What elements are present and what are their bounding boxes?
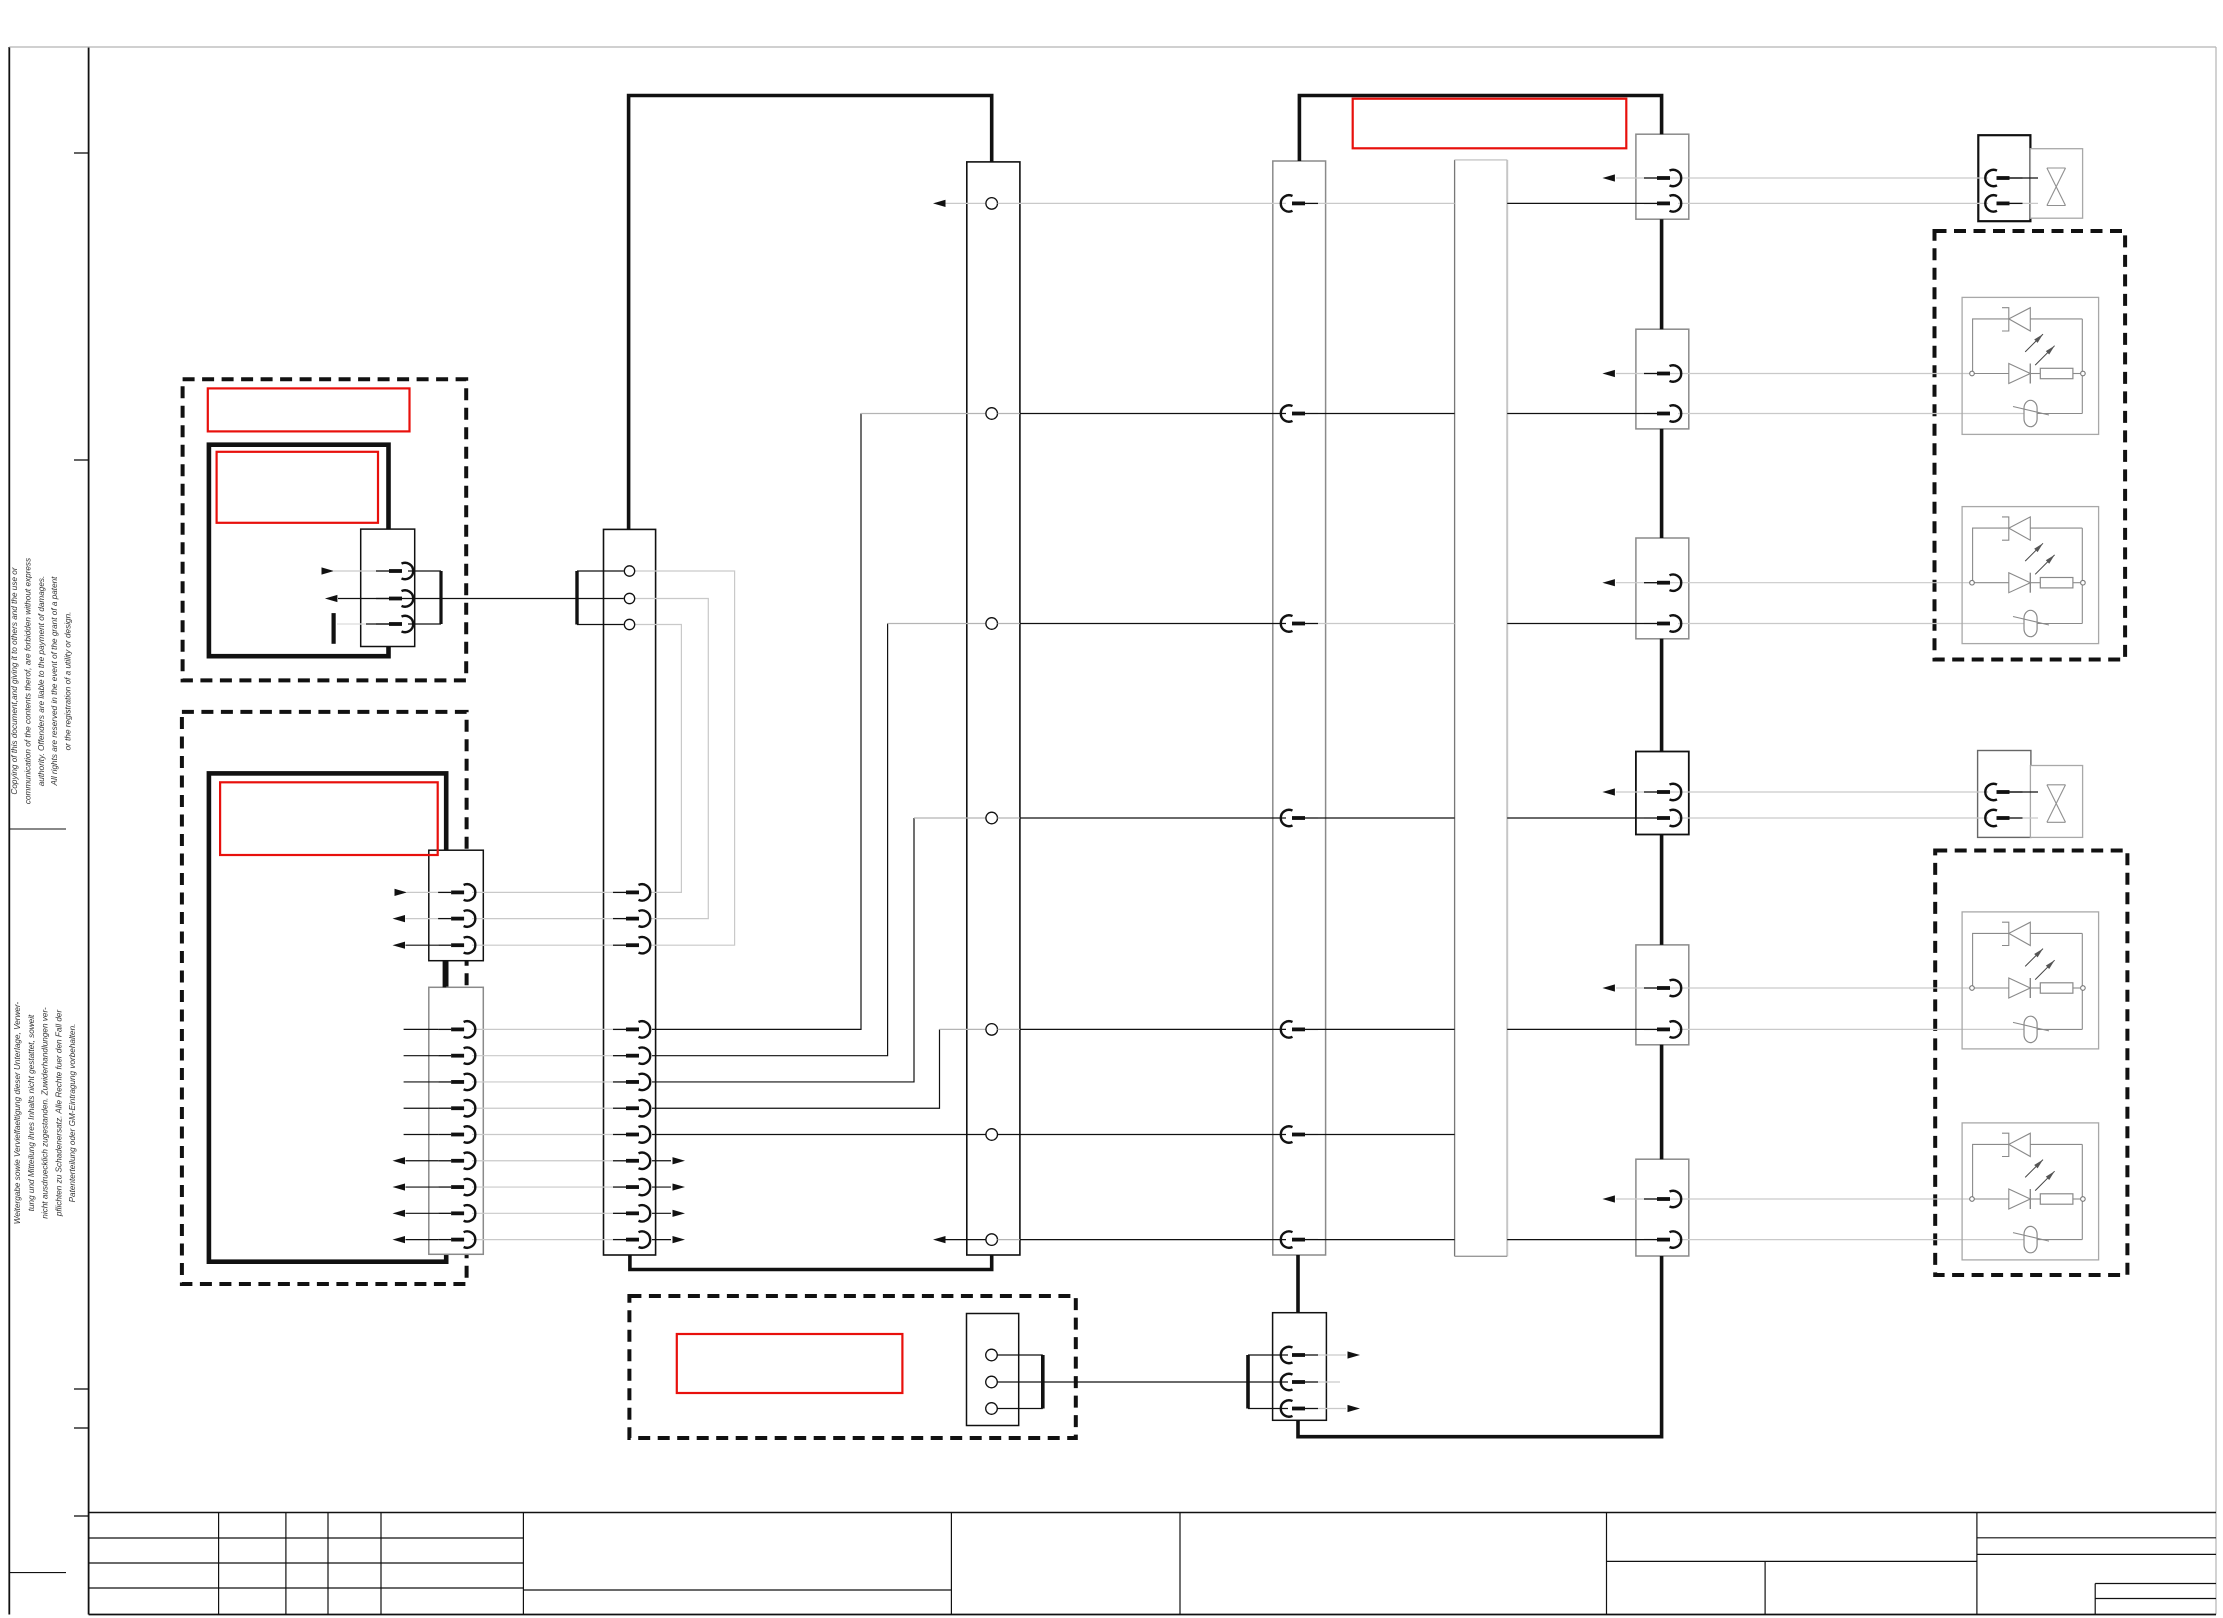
wire: ground bus bottom left: [630, 1255, 992, 1270]
wire: X1 pin3 lead: [337, 623, 389, 625]
svg-text:nicht ausdruecklich zugestande: nicht ausdruecklich zugestanden. Zuwider…: [41, 1007, 50, 1219]
wire: A loop 1: [635, 571, 735, 945]
wire: trunk X2 to X3: [443, 961, 447, 988]
wire: X11 bracket stub 3: [1248, 1408, 1288, 1410]
arrow out of X1 pin2: [325, 595, 338, 602]
wire: battery bus top right: [1299, 96, 1661, 162]
arrow into X2 pin1: [395, 889, 408, 896]
svg-text:pflichten zu Schadenersatz. Al: pflichten zu Schadenersatz. Alle Rechte …: [54, 1010, 63, 1218]
arrow out of X2 pin2: [393, 915, 406, 922]
sockets of X10: [986, 1349, 998, 1414]
wires: X3 to column A: [393, 1029, 614, 1243]
wire: X2 pin3 lead: [406, 944, 439, 946]
dashed enclosure: lamp group 1 (top right): [1935, 231, 2126, 660]
stub arrows at A outputs: [652, 1157, 685, 1243]
dashed enclosure: lamp group 2 (lower right): [1935, 851, 2127, 1276]
arrow out of X2 pin3: [393, 942, 406, 949]
connector column B: [967, 162, 1020, 1255]
wire: A pin7 riser to B: [652, 1029, 986, 1108]
dashed enclosure: device unit 1 (top left): [183, 379, 467, 680]
pins of connector X3: [438, 1021, 475, 1248]
jumper bracket at X10: [1041, 1355, 1045, 1409]
svg-text:communication of the contents: communication of the contents therof, ar…: [23, 558, 32, 804]
wire: A pin5 riser to B: [652, 624, 986, 1056]
wire: ground bus bottom right: [1298, 1256, 1662, 1437]
red label box 2: [217, 452, 378, 523]
connector column A: [604, 529, 656, 1255]
connector E2: [1636, 329, 1689, 429]
svg-text:All rights are reserved in the: All rights are reserved in the event of …: [50, 576, 59, 787]
svg-text:or the registration of a utili: or the registration of a utility or desi…: [64, 612, 73, 751]
red label box 1: [208, 388, 410, 431]
red label box 4 (top middle): [1353, 99, 1627, 149]
connector X11 (bottom, right of middle): [1273, 1313, 1327, 1421]
connector column C: [1273, 161, 1326, 1255]
red label box 5 (bottom middle): [677, 1334, 903, 1393]
fold marks: [74, 153, 89, 1516]
arrows out of X11: [1318, 1351, 1360, 1412]
wire: X10 socket3 stub: [997, 1408, 1043, 1410]
jumper bracket at X11: [1246, 1355, 1250, 1409]
legal notice (english): [10, 558, 73, 804]
svg-text:Weitergabe sowie Vervielfaelti: Weitergabe sowie Vervielfaeltigung diese…: [13, 1001, 22, 1224]
sockets at top of column A: [624, 566, 634, 630]
wire: A loop 2: [635, 599, 709, 919]
sockets of column B: [986, 198, 998, 1246]
title block: [89, 1513, 2216, 1615]
device body (top left): [209, 445, 389, 657]
svg-text:Patenterteilung oder GM-Eintra: Patenterteilung oder GM-Eintragung vorbe…: [68, 1024, 77, 1203]
wire: X2 pin1 to A: [472, 891, 613, 893]
pins of X11: [1281, 1347, 1318, 1417]
pins of connector X2: [438, 884, 475, 953]
wire: bracket to A circle 3: [577, 624, 624, 626]
wire: X1 jumper stub pin3: [408, 623, 441, 625]
wire: X1 pin2 to column A: [338, 598, 624, 600]
connector X2 (on device 2, upper): [429, 850, 484, 961]
jumper bracket at column A top: [575, 571, 578, 625]
arrow into X1 pin1: [322, 567, 335, 574]
pins of column C: [1281, 195, 1318, 1248]
wire: X2 pin2 to A: [472, 918, 613, 920]
terminator stub at X1 pin3: [332, 613, 336, 644]
dashed enclosure: device unit 3 (bottom middle): [629, 1296, 1075, 1438]
connector X3 (on device 2, lower): [429, 987, 484, 1254]
wire: X2 pin2 lead: [406, 918, 439, 920]
connector E3: [1636, 538, 1689, 639]
wire: battery bus top left: [629, 96, 992, 530]
horn H2 (buzzer symbol): [1985, 766, 2082, 838]
wire: bus C-column to X11: [1296, 1255, 1300, 1313]
wire: X10 socket2 to X11: [997, 1381, 1288, 1383]
red label box 3: [220, 782, 438, 855]
device body (lower left): [209, 773, 446, 1261]
connector on horn H1: [1978, 135, 2030, 221]
arrow at B socket 7: [933, 1236, 986, 1243]
wire: X1 jumper stub pin1: [408, 570, 441, 572]
connector X10 (bottom middle): [967, 1314, 1019, 1426]
svg-text:authority. Offenders are liabl: authority. Offenders are liable to the p…: [37, 576, 46, 787]
lamp unit LED4: [1962, 1123, 2099, 1260]
svg-text:tung und Mitteilung ihres Inha: tung und Mitteilung ihres Inhalts nicht …: [27, 1014, 36, 1211]
connector on horn H2: [1978, 751, 2031, 838]
connector E1: [1636, 134, 1689, 219]
wire: X2 pin3 to A: [472, 944, 613, 946]
lamp unit LED3: [1962, 912, 2099, 1049]
wire: X1 pin1 lead: [334, 570, 389, 572]
wire: E-column trunk: [1660, 219, 1664, 1159]
connector E4: [1636, 752, 1689, 835]
wire: A loop 3: [635, 625, 682, 893]
wire: A pin4 riser to B: [652, 414, 986, 1030]
lamp unit LED2: [1962, 507, 2099, 644]
connector E5: [1636, 945, 1689, 1045]
wire: bracket to A circle 1: [577, 570, 624, 572]
pins of column A group 3: [613, 1021, 650, 1248]
harness column D: [1455, 160, 1508, 1256]
legal notice (german): [13, 1001, 77, 1224]
dashed enclosure: device unit 2 (lower left): [182, 712, 467, 1284]
wires: E column to components: [1602, 174, 2023, 1239]
horn H1 (buzzer symbol): [1985, 149, 2082, 219]
arrow at B socket 1: [933, 200, 986, 207]
connector X1 (on device 1): [361, 529, 415, 646]
wire: X10 socket1 stub: [997, 1354, 1043, 1356]
connector E6: [1636, 1159, 1689, 1256]
jumper bracket at X1: [439, 571, 442, 624]
wire: A pin6 riser to B: [652, 818, 986, 1082]
pins of column A group 2: [613, 884, 650, 953]
pins of connector X1: [376, 563, 413, 632]
lamp unit LED1: [1962, 297, 2099, 434]
svg-text:Copying of this document,and g: Copying of this document,and giving it t…: [10, 567, 19, 794]
pins of E connectors: [1644, 170, 1681, 1248]
wire: X11 bracket stub 1: [1248, 1354, 1288, 1356]
wire: A pin8 to B: [652, 1134, 986, 1136]
wires: B to C to E: [998, 203, 1645, 1239]
wire: X2 pin1 lead: [407, 891, 438, 893]
